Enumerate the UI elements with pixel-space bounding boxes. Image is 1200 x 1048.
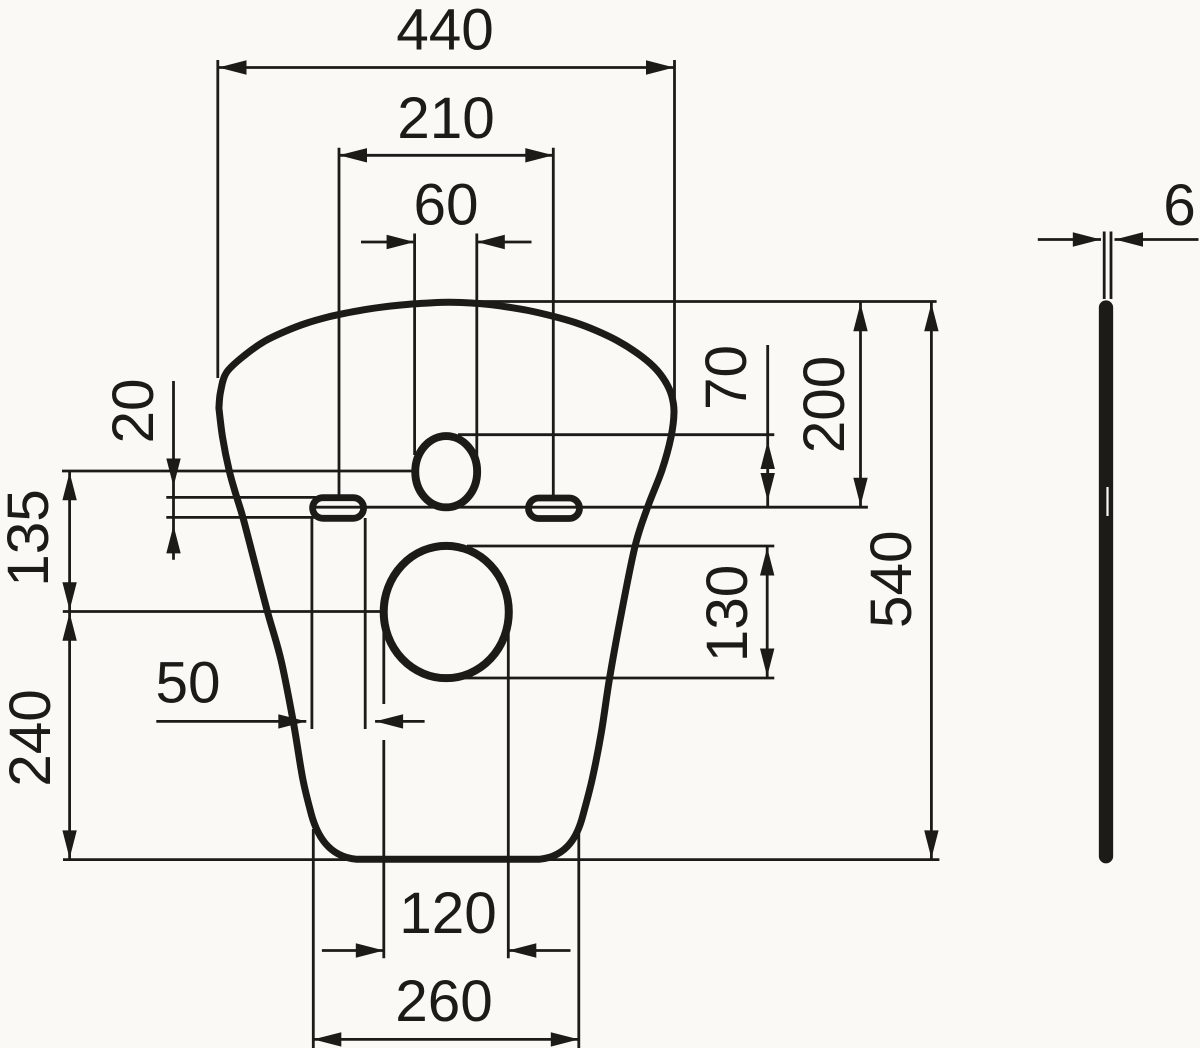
- svg-text:200: 200: [792, 356, 857, 454]
- svg-text:260: 260: [395, 969, 493, 1034]
- inlet top reference line: [458, 433, 774, 436]
- dimension 20: [101, 378, 316, 559]
- svg-text:210: 210: [397, 86, 495, 151]
- svg-text:135: 135: [0, 489, 61, 587]
- outlet top tangent line: [467, 545, 774, 548]
- left fixing slot: [313, 498, 364, 519]
- svg-text:50: 50: [155, 651, 220, 716]
- svg-text:60: 60: [413, 173, 478, 238]
- dimension 6: [1038, 173, 1199, 299]
- svg-text:240: 240: [0, 689, 63, 787]
- svg-text:70: 70: [694, 345, 759, 410]
- waste outlet hole: [384, 546, 509, 678]
- bottom reference line: [63, 858, 939, 861]
- dimension 135: [0, 471, 77, 612]
- outlet centre line: [63, 610, 383, 613]
- side profile wall section: [1106, 308, 1108, 857]
- dimension 200: [792, 302, 868, 507]
- outlet bottom tangent line: [465, 677, 774, 680]
- dimension 120: [322, 622, 571, 958]
- svg-text:120: 120: [399, 881, 497, 946]
- dimension 60: [361, 173, 532, 471]
- water inlet hole: [415, 436, 477, 507]
- dimension 260: [313, 829, 579, 1048]
- dimension 240: [0, 612, 77, 860]
- svg-text:130: 130: [695, 565, 760, 663]
- dimension 210: [339, 86, 553, 499]
- svg-text:20: 20: [101, 378, 166, 443]
- top reference line: [452, 300, 937, 303]
- dimension 70: [694, 345, 775, 507]
- inlet centre line: [62, 470, 444, 473]
- dimension 540: [859, 302, 939, 860]
- slot centre line: [315, 506, 868, 509]
- front view outline: [219, 302, 674, 859]
- right fixing slot: [529, 498, 580, 519]
- dimension 50: [155, 518, 424, 729]
- svg-text:440: 440: [396, 0, 494, 63]
- svg-text:540: 540: [859, 530, 924, 628]
- dimension 440: [218, 0, 675, 422]
- dimension 130: [695, 546, 774, 678]
- svg-text:6: 6: [1163, 173, 1196, 238]
